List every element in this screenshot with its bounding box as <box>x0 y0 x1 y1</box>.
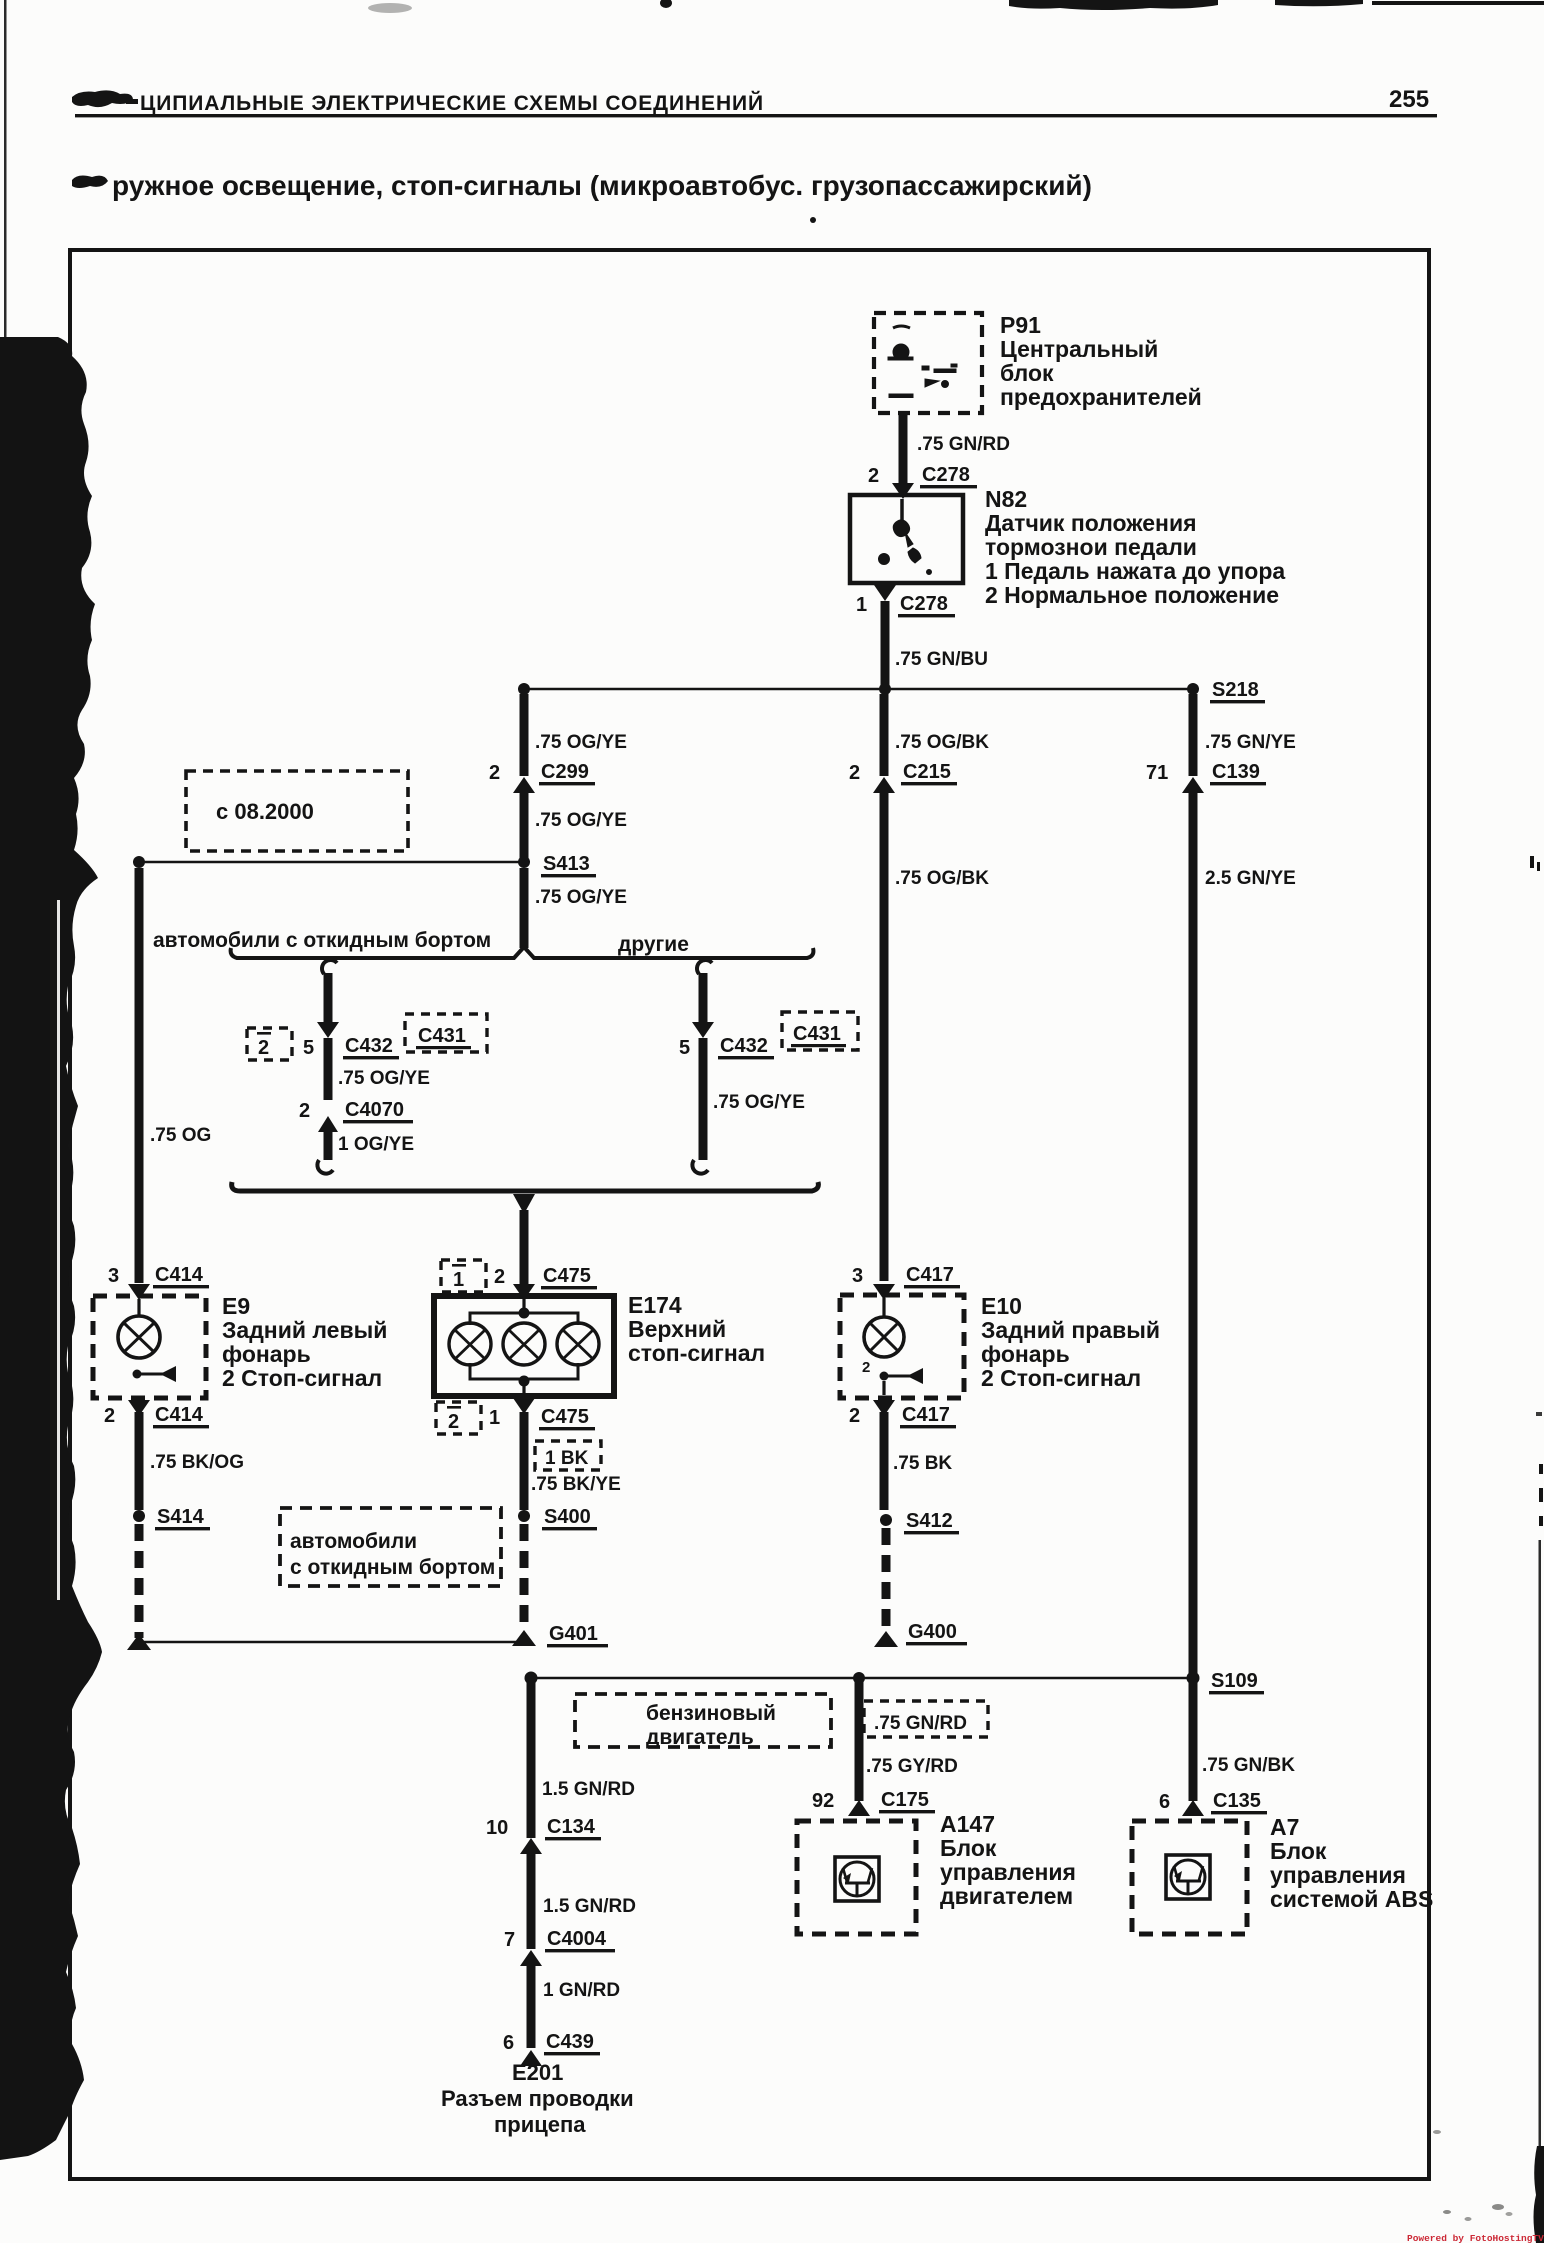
svg-text:C134: C134 <box>547 1816 596 1838</box>
svg-text:.75 OG/YE: .75 OG/YE <box>713 1092 805 1113</box>
wire C432-C4070 (.75 OG/YE) <box>324 1038 333 1100</box>
svg-text:2 Нормальное положение: 2 Нормальное положение <box>985 582 1279 608</box>
svg-text:.75 GN/RD: .75 GN/RD <box>874 1713 967 1734</box>
left margin scan blob <box>0 337 102 2160</box>
svg-text:2: 2 <box>448 1411 459 1433</box>
svg-text:S414: S414 <box>157 1506 205 1528</box>
wire .75 OG (left feeder) <box>135 868 144 1283</box>
date variant box c 08.2000 <box>186 771 408 851</box>
connector C278 pin 1 <box>874 585 896 601</box>
svg-text:C135: C135 <box>1213 1790 1261 1812</box>
high stop lamp E174 <box>434 1296 614 1396</box>
splice S412 <box>880 1514 892 1526</box>
svg-text:C175: C175 <box>881 1789 929 1811</box>
svg-text:.75 OG/YE: .75 OG/YE <box>535 810 627 831</box>
svg-text:5: 5 <box>303 1037 314 1059</box>
svg-text:2 Стоп-сигнал: 2 Стоп-сигнал <box>981 1365 1141 1391</box>
svg-text:C475: C475 <box>541 1406 589 1428</box>
svg-text:1 GN/RD: 1 GN/RD <box>543 1980 620 2001</box>
subtitle scribble blob <box>72 176 108 188</box>
connector C475 pin 1 bottom with variant [2] <box>513 1398 535 1414</box>
svg-text:1: 1 <box>856 594 867 616</box>
svg-text:Датчик положения: Датчик положения <box>985 510 1197 536</box>
svg-text:C414: C414 <box>155 1404 204 1426</box>
wire C215 to C417 (.75 OG/BK) <box>880 793 889 1281</box>
svg-text:.75 OG/YE: .75 OG/YE <box>535 732 627 753</box>
right margin small marks <box>1530 856 1534 868</box>
P91 internal fuse marks <box>888 326 957 398</box>
wire to C432 left <box>324 973 333 1022</box>
svg-text:.75 BK: .75 BK <box>893 1453 952 1474</box>
svg-text:C431: C431 <box>418 1025 466 1047</box>
svg-text:Задний правый: Задний правый <box>981 1317 1160 1343</box>
diagram frame <box>70 250 1429 2179</box>
svg-text:2: 2 <box>868 465 879 487</box>
svg-text:S109: S109 <box>1211 1670 1258 1692</box>
page left edge line <box>4 0 7 337</box>
variant box .75 GN/RD <box>864 1701 988 1737</box>
bottom curl right branch <box>692 1160 708 1174</box>
svg-text:C414: C414 <box>155 1264 204 1286</box>
variant box petrol engine <box>575 1694 831 1747</box>
svg-text:1: 1 <box>489 1407 500 1429</box>
ground wire dashed (E10) <box>882 1528 891 1630</box>
wire S218 to C139 (.75 GN/YE) <box>1189 694 1198 776</box>
svg-text:Задний левый: Задний левый <box>222 1317 387 1343</box>
svg-text:A147: A147 <box>940 1811 995 1837</box>
bottom gather bracket <box>232 1182 819 1191</box>
wire S109 to C135 (.75 GN/BK) <box>1189 1678 1198 1801</box>
pin variant box [2] <box>247 1028 292 1060</box>
top edge scan artifacts <box>368 0 1544 13</box>
svg-text:автомобили: автомобили <box>290 1530 417 1553</box>
svg-text:C215: C215 <box>903 761 951 783</box>
svg-text:Верхний: Верхний <box>628 1316 726 1342</box>
svg-text:.75 BK/YE: .75 BK/YE <box>531 1474 621 1495</box>
svg-text:Powered by FotoHostingTV.RU: Powered by FotoHostingTV.RU <box>1407 2233 1544 2243</box>
wire S413 down (.75 OG/YE) <box>520 868 529 948</box>
wire C139 to S109 (2.5 GN/YE) <box>1189 793 1198 1678</box>
wire to C432 right <box>699 973 708 1022</box>
svg-text:G401: G401 <box>549 1623 598 1645</box>
svg-text:2 Стоп-сигнал: 2 Стоп-сигнал <box>222 1365 382 1391</box>
svg-text:.75 OG/YE: .75 OG/YE <box>338 1068 430 1089</box>
wire .75 BK/OG <box>135 1412 144 1510</box>
svg-text:71: 71 <box>1146 762 1168 784</box>
svg-text:фонарь: фонарь <box>222 1341 311 1367</box>
svg-text:другие: другие <box>618 933 689 956</box>
wire S109 to C175 <box>855 1678 864 1801</box>
svg-text:7: 7 <box>504 1929 515 1951</box>
E174 bulb 2 <box>503 1323 545 1365</box>
E174 bulb 3 <box>557 1323 599 1365</box>
svg-text:управления: управления <box>940 1859 1076 1885</box>
svg-text:C278: C278 <box>922 464 970 486</box>
svg-text:1.5 GN/RD: 1.5 GN/RD <box>543 1896 636 1917</box>
svg-text:C417: C417 <box>906 1264 954 1286</box>
svg-text:E201: E201 <box>512 2060 563 2085</box>
svg-text:C475: C475 <box>543 1265 591 1287</box>
svg-text:E174: E174 <box>628 1292 682 1318</box>
engine control unit A147 (dashed) <box>797 1821 916 1934</box>
svg-text:.75 OG/BK: .75 OG/BK <box>895 732 989 753</box>
svg-text:Центральный: Центральный <box>1000 336 1158 362</box>
svg-text:2: 2 <box>299 1100 310 1122</box>
splice S400 <box>518 1510 530 1522</box>
rear right lamp E10 (dashed) <box>840 1295 964 1398</box>
wire right branch (.75 OG/YE) <box>699 1038 708 1160</box>
svg-text:с откидным бортом: с откидным бортом <box>290 1556 495 1579</box>
svg-text:C139: C139 <box>1212 761 1260 783</box>
svg-text:.75 BK/OG: .75 BK/OG <box>150 1452 244 1473</box>
svg-text:255: 255 <box>1389 86 1429 113</box>
wire bracket to C475 <box>520 1210 529 1284</box>
svg-text:1 Педаль нажата до упора: 1 Педаль нажата до упора <box>985 558 1285 584</box>
connector C475 pin 2 top with variant [1] <box>441 1260 486 1292</box>
E174 top rail <box>470 1313 578 1325</box>
wire S109 to C134 (1.5 GN/RD) <box>527 1678 536 1838</box>
branch wire right: top curl <box>697 960 712 974</box>
connector C431 left (dashed) <box>405 1014 487 1052</box>
svg-text:бензиновый: бензиновый <box>646 1702 776 1725</box>
svg-text:2: 2 <box>494 1266 505 1288</box>
svg-text:Блок: Блок <box>940 1835 997 1861</box>
svg-text:2: 2 <box>862 1359 870 1376</box>
svg-text:.75 GN/YE: .75 GN/YE <box>1205 732 1296 753</box>
wire S218 to C299 (.75 OG/YE) <box>520 694 529 776</box>
top variant bracket <box>231 947 814 958</box>
junction arrow into C475 wire <box>513 1194 535 1214</box>
bottom-right specks <box>1443 2210 1451 2214</box>
svg-text:A7: A7 <box>1270 1814 1299 1840</box>
wire .75 BK <box>880 1412 889 1510</box>
svg-text:S400: S400 <box>544 1506 591 1528</box>
connector C414 pin 2 <box>128 1400 150 1416</box>
right bottom edge blob <box>1534 2146 1544 2243</box>
splice rail S109 <box>531 1677 1193 1680</box>
svg-text:2: 2 <box>849 1405 860 1427</box>
right page edge line <box>1539 1540 1542 2160</box>
svg-text:стоп-сигнал: стоп-сигнал <box>628 1340 765 1366</box>
splice S414 <box>133 1510 145 1522</box>
bottom curl left branch <box>317 1160 333 1174</box>
svg-text:ЦИПИАЛЬНЫЕ ЭЛЕКТРИЧЕСКИЕ СХЕМЫ: ЦИПИАЛЬНЫЕ ЭЛЕКТРИЧЕСКИЕ СХЕМЫ СОЕДИНЕНИ… <box>140 91 764 115</box>
svg-text:.75 OG: .75 OG <box>150 1125 211 1146</box>
svg-text:E9: E9 <box>222 1293 250 1319</box>
svg-text:C299: C299 <box>541 761 589 783</box>
svg-text:2: 2 <box>489 762 500 784</box>
svg-text:2.5 GN/YE: 2.5 GN/YE <box>1205 868 1296 889</box>
brake pedal switch N82 <box>850 495 963 583</box>
wire C4004 to C439 (1 GN/RD) <box>527 1966 536 2048</box>
connector C417 pin 2 <box>873 1400 895 1416</box>
svg-text:автомобили с откидным бортом: автомобили с откидным бортом <box>153 929 491 952</box>
blob inner white sliver <box>57 900 60 1600</box>
svg-text:P91: P91 <box>1000 312 1041 338</box>
header scribble blob <box>72 90 133 107</box>
wire S218 to C215 (.75 OG/BK) <box>880 694 889 776</box>
ground G400 <box>874 1631 898 1647</box>
branch wire other: top curl <box>322 960 337 974</box>
svg-text:тормознои педали: тормознои педали <box>985 534 1197 560</box>
svg-text:.75 GY/RD: .75 GY/RD <box>866 1756 958 1777</box>
svg-text:92: 92 <box>812 1790 834 1812</box>
svg-text:Разъем проводки: Разъем проводки <box>441 2086 634 2111</box>
svg-text:двигателем: двигателем <box>940 1883 1073 1909</box>
svg-text:.75 OG/YE: .75 OG/YE <box>535 887 627 908</box>
svg-text:E10: E10 <box>981 1293 1022 1319</box>
splice rail S218 <box>524 688 1193 691</box>
wire N82 to splice (.75 GN/BU) <box>881 601 890 689</box>
svg-text:6: 6 <box>503 2032 514 2054</box>
svg-text:1.5 GN/RD: 1.5 GN/RD <box>542 1779 635 1800</box>
svg-text:6: 6 <box>1159 1791 1170 1813</box>
svg-text:с 08.2000: с 08.2000 <box>216 799 314 824</box>
wire C134 to C4004 (1.5 GN/RD) <box>527 1854 536 1949</box>
svg-text:N82: N82 <box>985 486 1027 512</box>
svg-text:фонарь: фонарь <box>981 1341 1070 1367</box>
header underline <box>75 114 1437 117</box>
svg-text:C432: C432 <box>345 1035 393 1057</box>
svg-text:2: 2 <box>849 762 860 784</box>
fuse box P91 (dashed) <box>874 313 982 413</box>
wire 1 OG/YE <box>324 1132 333 1160</box>
connector C431 right (dashed) <box>782 1012 858 1050</box>
svg-text:2: 2 <box>104 1405 115 1427</box>
svg-text:предохранителей: предохранителей <box>1000 384 1202 410</box>
svg-text:Блок: Блок <box>1270 1838 1327 1864</box>
variant box tailgate cars <box>280 1508 501 1586</box>
svg-text:C4004: C4004 <box>547 1928 607 1950</box>
svg-text:3: 3 <box>852 1265 863 1287</box>
svg-text:прицепа: прицепа <box>494 2112 586 2137</box>
svg-text:управления: управления <box>1270 1862 1406 1888</box>
E174 bottom rail <box>470 1363 578 1379</box>
svg-text:S413: S413 <box>543 853 590 875</box>
svg-text:C431: C431 <box>793 1023 841 1045</box>
svg-text:1 BK: 1 BK <box>545 1448 589 1469</box>
svg-text:.75 GN/RD: .75 GN/RD <box>917 434 1010 455</box>
svg-text:блок: блок <box>1000 360 1054 386</box>
svg-text:S412: S412 <box>906 1510 953 1532</box>
svg-text:C417: C417 <box>902 1404 950 1426</box>
svg-text:2: 2 <box>258 1037 269 1059</box>
E9 bulb <box>137 1299 140 1317</box>
svg-text:3: 3 <box>108 1265 119 1287</box>
svg-text:1 OG/YE: 1 OG/YE <box>338 1134 414 1155</box>
svg-text:C439: C439 <box>546 2031 594 2053</box>
wire P91 to C278 (.75 GN/RD) <box>899 413 908 483</box>
svg-text:C432: C432 <box>720 1035 768 1057</box>
svg-text:C4070: C4070 <box>345 1099 404 1121</box>
E9 contact <box>133 1370 142 1379</box>
svg-text:S218: S218 <box>1212 679 1259 701</box>
rear left lamp E9 (dashed) <box>93 1296 206 1398</box>
svg-text:G400: G400 <box>908 1621 957 1643</box>
svg-text:.75 OG/BK: .75 OG/BK <box>895 868 989 889</box>
svg-text:5: 5 <box>679 1037 690 1059</box>
svg-text:C278: C278 <box>900 593 948 615</box>
svg-text:.75 GN/BU: .75 GN/BU <box>895 649 988 670</box>
svg-text:.75 GN/BK: .75 GN/BK <box>1202 1755 1295 1776</box>
ground wire dashed (E174) <box>520 1524 529 1632</box>
splice S413 <box>139 861 524 864</box>
E174 bulb 1 <box>449 1323 491 1365</box>
svg-text:ружное освещение, стоп-сигналы: ружное освещение, стоп-сигналы (микроавт… <box>112 170 1092 201</box>
svg-text:системой ABS: системой ABS <box>1270 1886 1433 1912</box>
wire .75 BK/YE <box>520 1412 529 1510</box>
svg-text:двигатель: двигатель <box>646 1726 754 1749</box>
ABS control unit A7 (dashed) <box>1132 1821 1247 1934</box>
svg-text:10: 10 <box>486 1817 508 1839</box>
stray dot <box>810 217 816 223</box>
ground G401 rail <box>127 1634 151 1650</box>
variant box 1 BK <box>535 1441 601 1470</box>
ground wire dashed (E9) <box>135 1524 144 1638</box>
wire C299 to S413 (.75 OG/YE) <box>520 793 529 862</box>
svg-text:1: 1 <box>453 1269 464 1291</box>
